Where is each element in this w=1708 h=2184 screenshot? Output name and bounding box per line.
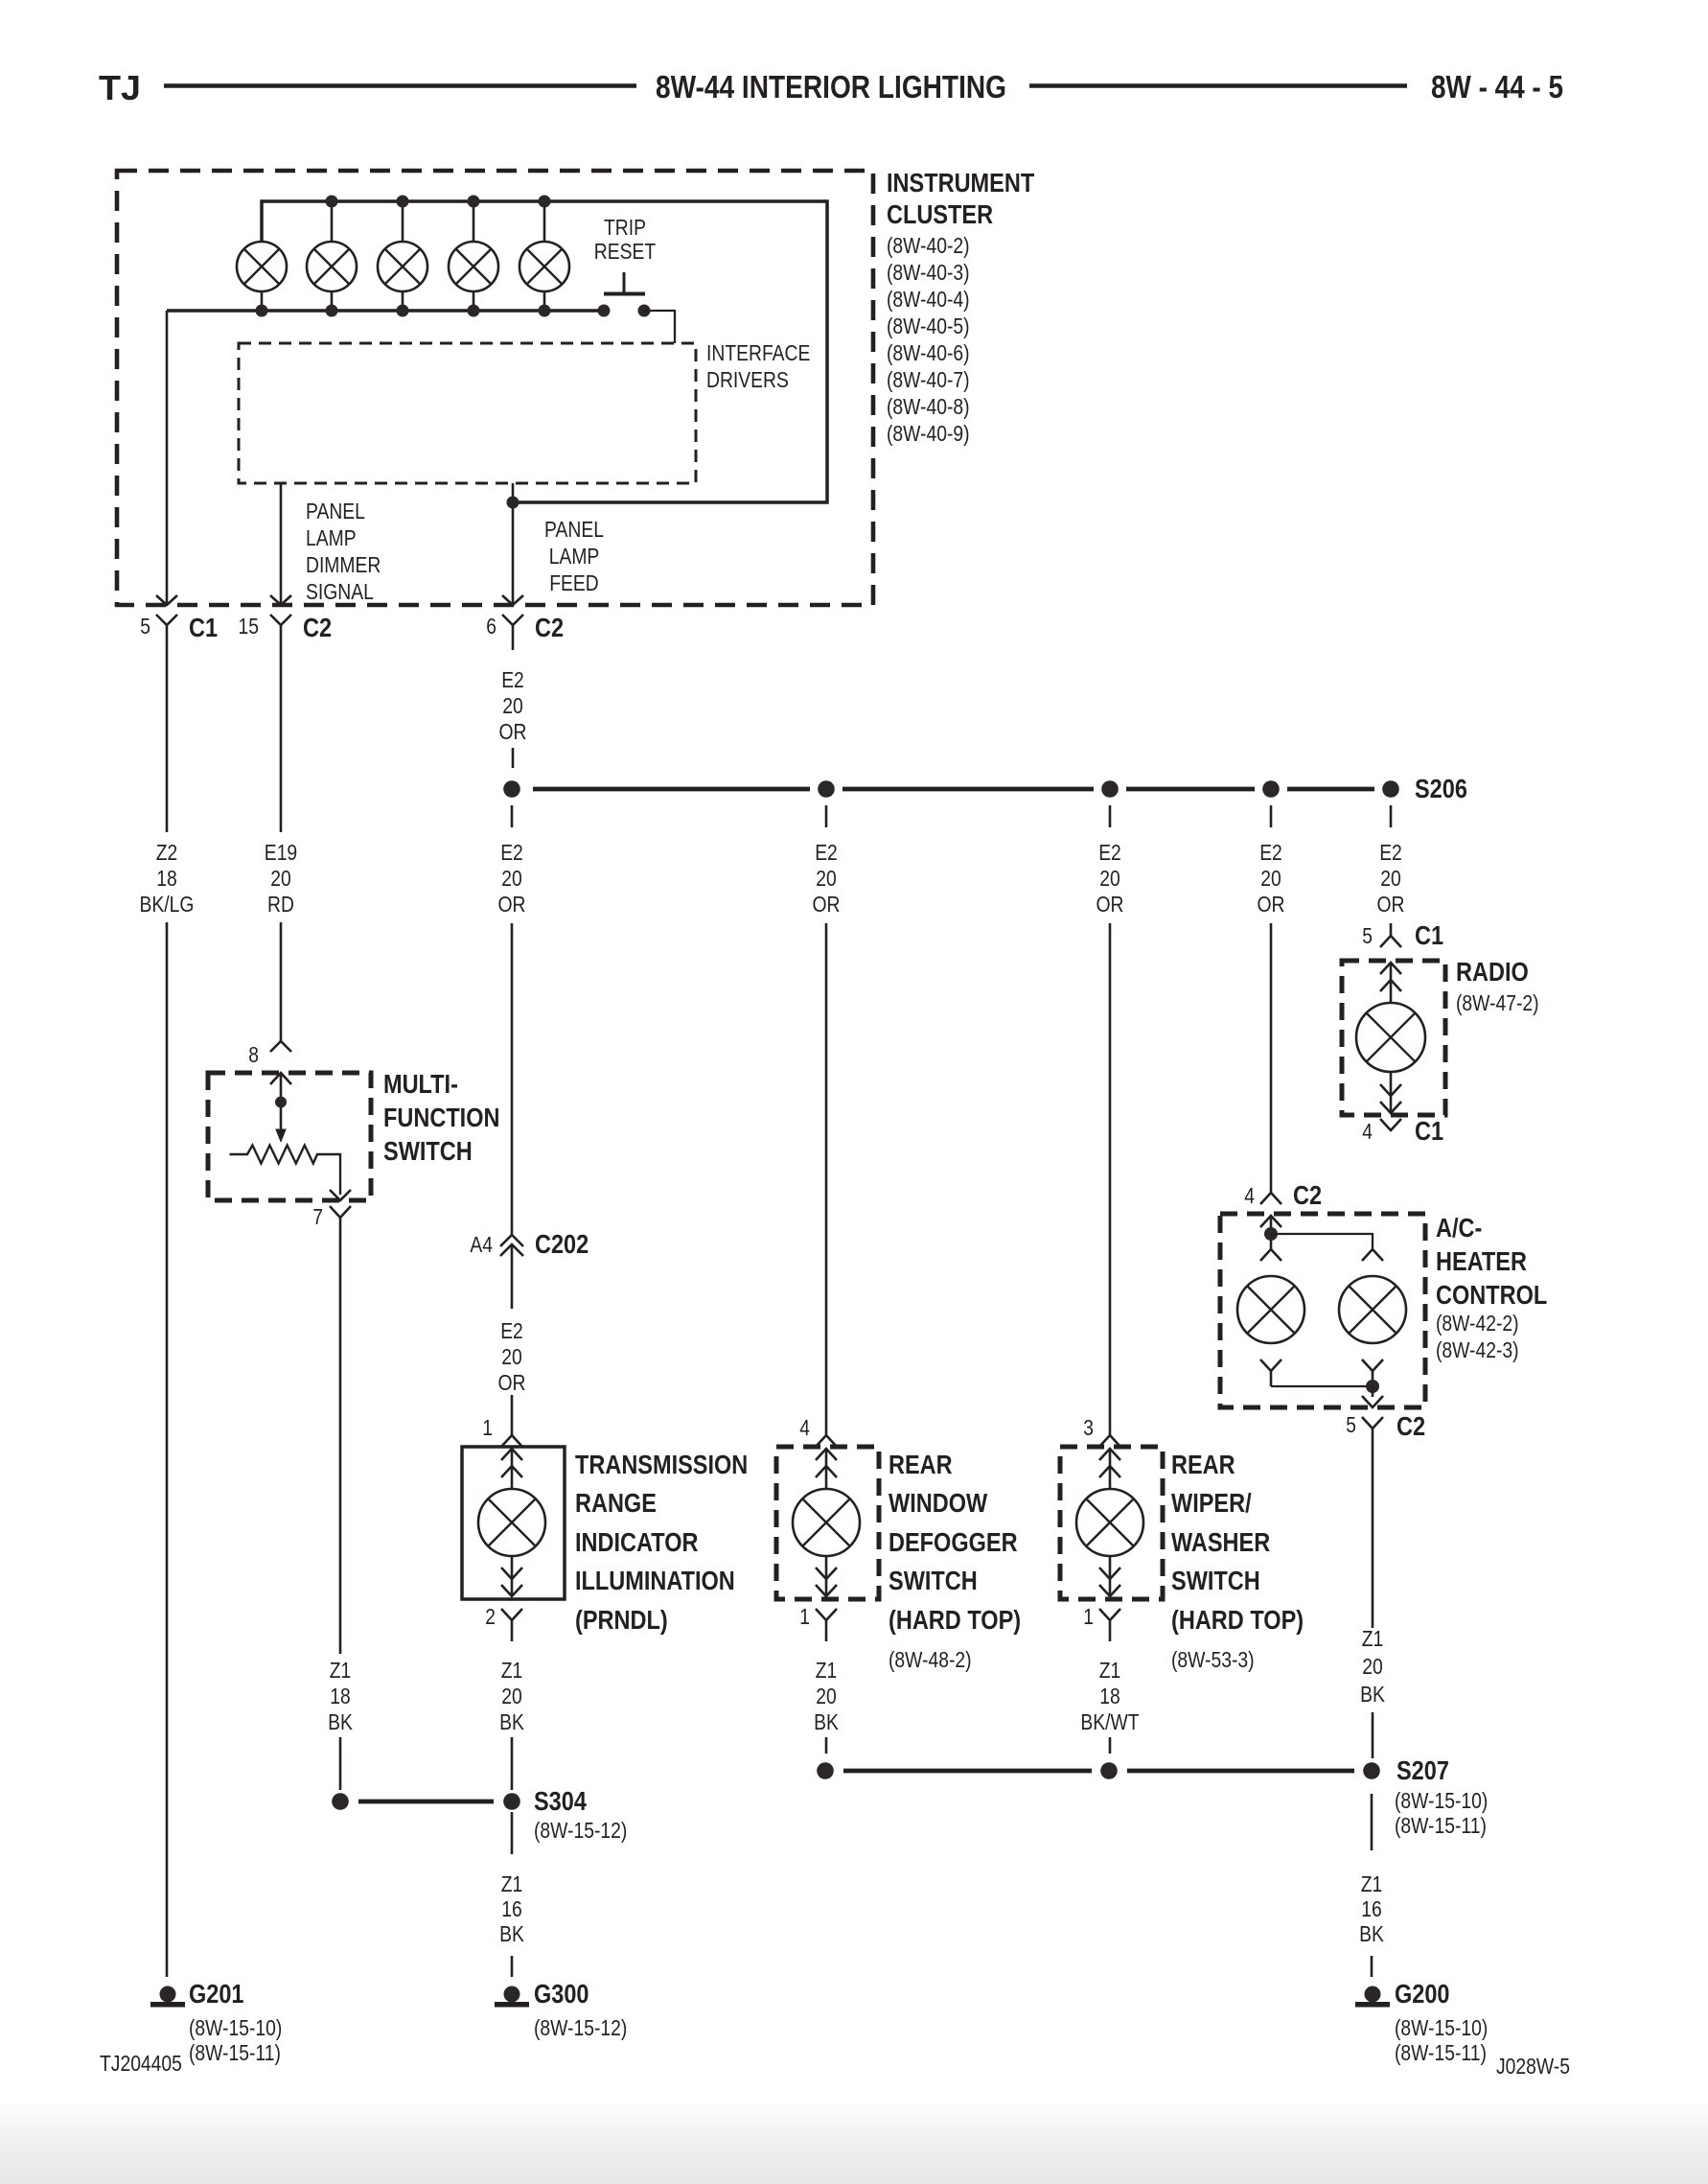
svg-text:DIMMER: DIMMER	[306, 552, 381, 577]
svg-text:(8W-15-11): (8W-15-11)	[1395, 2040, 1487, 2065]
svg-text:E2: E2	[815, 840, 838, 865]
svg-text:Z1: Z1	[501, 1871, 523, 1896]
svg-text:8: 8	[248, 1042, 259, 1067]
svg-text:(8W-53-3): (8W-53-3)	[1171, 1647, 1255, 1672]
svg-text:2: 2	[485, 1604, 496, 1629]
svg-text:E2: E2	[501, 667, 524, 692]
svg-text:FUNCTION: FUNCTION	[383, 1103, 500, 1132]
svg-text:15: 15	[239, 614, 260, 639]
svg-text:(8W-40-5): (8W-40-5)	[887, 314, 970, 338]
svg-text:BK: BK	[499, 1709, 524, 1734]
svg-text:A/C-: A/C-	[1436, 1213, 1482, 1243]
svg-text:(8W-15-10): (8W-15-10)	[1395, 1788, 1488, 1813]
svg-text:20: 20	[501, 866, 522, 891]
svg-text:INDICATOR: INDICATOR	[575, 1527, 699, 1557]
svg-text:20: 20	[502, 693, 523, 718]
svg-text:E2: E2	[1259, 840, 1282, 865]
svg-text:OR: OR	[1258, 892, 1285, 917]
svg-text:HEATER: HEATER	[1436, 1246, 1527, 1276]
svg-text:SWITCH: SWITCH	[889, 1566, 978, 1595]
svg-text:(8W-15-11): (8W-15-11)	[189, 2040, 281, 2065]
svg-text:20: 20	[816, 866, 837, 891]
svg-text:BK: BK	[1360, 1682, 1385, 1707]
svg-text:5: 5	[1362, 923, 1373, 948]
svg-text:20: 20	[501, 1684, 522, 1708]
svg-text:PANEL: PANEL	[306, 499, 365, 523]
svg-text:BK/LG: BK/LG	[140, 892, 195, 917]
svg-text:REAR: REAR	[889, 1450, 953, 1479]
svg-text:(8W-40-6): (8W-40-6)	[887, 340, 970, 365]
svg-text:OR: OR	[813, 892, 841, 917]
svg-text:Z1: Z1	[330, 1658, 352, 1683]
svg-text:16: 16	[1361, 1896, 1382, 1921]
svg-text:(8W-40-9): (8W-40-9)	[887, 421, 970, 446]
svg-text:E2: E2	[1098, 840, 1121, 865]
svg-text:DEFOGGER: DEFOGGER	[889, 1527, 1018, 1557]
svg-text:C2: C2	[535, 613, 564, 642]
svg-text:E2: E2	[1379, 840, 1402, 865]
svg-text:(8W-40-7): (8W-40-7)	[887, 367, 970, 392]
svg-text:(8W-40-3): (8W-40-3)	[887, 260, 970, 285]
svg-text:20: 20	[501, 1344, 522, 1369]
svg-text:(8W-40-4): (8W-40-4)	[887, 287, 970, 312]
svg-text:1: 1	[1083, 1604, 1094, 1629]
svg-text:(8W-47-2): (8W-47-2)	[1456, 990, 1539, 1015]
svg-text:18: 18	[156, 866, 177, 891]
svg-text:Z1: Z1	[1362, 1626, 1384, 1651]
svg-text:4: 4	[1244, 1183, 1255, 1208]
svg-text:TJ: TJ	[99, 68, 141, 107]
svg-text:20: 20	[270, 866, 291, 891]
svg-text:Z1: Z1	[816, 1658, 838, 1683]
svg-text:G201: G201	[189, 1979, 244, 2009]
svg-text:6: 6	[486, 614, 496, 639]
svg-text:1: 1	[799, 1604, 810, 1629]
svg-text:RADIO: RADIO	[1456, 957, 1529, 987]
svg-text:C2: C2	[1396, 1411, 1425, 1441]
svg-text:CLUSTER: CLUSTER	[887, 199, 993, 229]
svg-text:C1: C1	[189, 613, 218, 642]
svg-text:16: 16	[501, 1896, 522, 1921]
svg-text:E2: E2	[500, 840, 523, 865]
svg-text:RANGE: RANGE	[575, 1488, 657, 1518]
svg-text:S206: S206	[1415, 774, 1467, 803]
svg-text:E2: E2	[500, 1318, 523, 1343]
svg-text:Z1: Z1	[1099, 1658, 1121, 1683]
svg-text:LAMP: LAMP	[306, 525, 357, 550]
svg-text:RESET: RESET	[594, 239, 656, 264]
svg-text:WIPER/: WIPER/	[1171, 1488, 1252, 1518]
svg-text:C202: C202	[535, 1229, 589, 1259]
svg-text:(8W-15-11): (8W-15-11)	[1395, 1813, 1487, 1838]
svg-text:S207: S207	[1396, 1755, 1449, 1785]
svg-text:C1: C1	[1415, 920, 1443, 950]
svg-text:5: 5	[140, 614, 150, 639]
svg-text:G200: G200	[1395, 1979, 1450, 2009]
svg-text:OR: OR	[498, 892, 526, 917]
svg-text:(8W-40-2): (8W-40-2)	[887, 233, 970, 258]
svg-text:BK: BK	[1359, 1921, 1384, 1946]
svg-text:DRIVERS: DRIVERS	[706, 367, 789, 392]
svg-text:INSTRUMENT: INSTRUMENT	[887, 168, 1034, 197]
svg-text:LAMP: LAMP	[549, 544, 600, 569]
svg-text:WINDOW: WINDOW	[889, 1488, 988, 1518]
svg-text:(8W-15-10): (8W-15-10)	[1395, 2015, 1488, 2040]
svg-text:20: 20	[1380, 866, 1401, 891]
svg-text:PANEL: PANEL	[544, 517, 604, 542]
svg-text:E19: E19	[265, 840, 297, 865]
svg-text:(8W-15-12): (8W-15-12)	[534, 1818, 627, 1843]
svg-text:1: 1	[482, 1415, 493, 1440]
svg-text:Z1: Z1	[501, 1658, 523, 1683]
svg-text:(8W-15-12): (8W-15-12)	[534, 2015, 627, 2040]
svg-text:CONTROL: CONTROL	[1436, 1280, 1547, 1310]
svg-text:WASHER: WASHER	[1171, 1527, 1270, 1557]
svg-text:4: 4	[1362, 1119, 1373, 1144]
svg-text:18: 18	[330, 1684, 351, 1708]
svg-text:(PRNDL): (PRNDL)	[575, 1605, 668, 1635]
svg-text:Z1: Z1	[1361, 1871, 1383, 1896]
svg-text:BK/WT: BK/WT	[1080, 1709, 1139, 1734]
svg-text:G300: G300	[534, 1979, 589, 2009]
svg-text:5: 5	[1346, 1412, 1356, 1437]
svg-text:(8W-42-3): (8W-42-3)	[1436, 1337, 1519, 1362]
svg-text:SWITCH: SWITCH	[1171, 1566, 1260, 1595]
svg-text:C1: C1	[1415, 1116, 1443, 1146]
svg-text:OR: OR	[498, 1370, 526, 1395]
svg-text:S304: S304	[534, 1786, 587, 1816]
svg-text:(8W-42-2): (8W-42-2)	[1436, 1311, 1519, 1336]
svg-text:20: 20	[1362, 1654, 1383, 1679]
svg-text:C2: C2	[303, 613, 332, 642]
svg-text:MULTI-: MULTI-	[383, 1069, 458, 1099]
svg-text:BK: BK	[499, 1921, 524, 1946]
svg-text:REAR: REAR	[1171, 1450, 1235, 1479]
svg-text:20: 20	[1099, 866, 1120, 891]
svg-text:3: 3	[1083, 1415, 1094, 1440]
svg-text:SIGNAL: SIGNAL	[306, 579, 374, 604]
svg-text:SWITCH: SWITCH	[383, 1136, 473, 1166]
svg-text:20: 20	[816, 1684, 837, 1708]
svg-text:J028W-5: J028W-5	[1496, 2054, 1570, 2079]
svg-text:8W - 44 - 5: 8W - 44 - 5	[1431, 69, 1563, 105]
svg-text:(8W-48-2): (8W-48-2)	[889, 1647, 972, 1672]
svg-text:TRANSMISSION: TRANSMISSION	[575, 1450, 748, 1479]
svg-text:(HARD TOP): (HARD TOP)	[889, 1605, 1021, 1635]
svg-text:C2: C2	[1293, 1180, 1322, 1210]
svg-text:(8W-15-10): (8W-15-10)	[189, 2015, 282, 2040]
svg-text:TJ204405: TJ204405	[100, 2051, 182, 2076]
svg-text:FEED: FEED	[549, 570, 599, 595]
svg-text:ILLUMINATION: ILLUMINATION	[575, 1566, 735, 1595]
svg-text:Z2: Z2	[156, 840, 178, 865]
svg-text:BK: BK	[328, 1709, 353, 1734]
svg-text:18: 18	[1099, 1684, 1120, 1708]
svg-text:INTERFACE: INTERFACE	[706, 340, 810, 365]
svg-text:BK: BK	[814, 1709, 839, 1734]
svg-text:TRIP: TRIP	[604, 215, 646, 240]
svg-text:(8W-40-8): (8W-40-8)	[887, 394, 970, 419]
svg-text:8W-44 INTERIOR LIGHTING: 8W-44 INTERIOR LIGHTING	[656, 69, 1006, 105]
svg-text:OR: OR	[1096, 892, 1124, 917]
svg-text:A4: A4	[470, 1232, 493, 1257]
svg-text:7: 7	[312, 1204, 323, 1229]
svg-text:20: 20	[1260, 866, 1281, 891]
svg-text:(HARD TOP): (HARD TOP)	[1171, 1605, 1304, 1635]
svg-text:RD: RD	[267, 892, 294, 917]
svg-text:OR: OR	[499, 719, 527, 744]
svg-text:4: 4	[799, 1415, 810, 1440]
svg-text:OR: OR	[1377, 892, 1405, 917]
